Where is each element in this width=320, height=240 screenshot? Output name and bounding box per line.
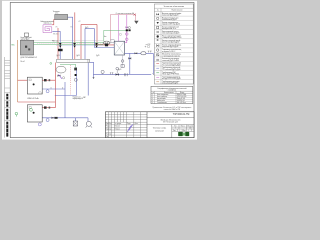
svg-text:нагрева: нагрева (44, 22, 50, 24)
svg-text:Наименование: Наименование (171, 10, 182, 12)
svg-text:из труб PPR PN10 Ду20: из труб PPR PN10 Ду20 (162, 78, 181, 80)
svg-text:КЧМ-5-К 21кВт: КЧМ-5-К 21кВт (27, 98, 39, 100)
svg-text:№ докум.: № докум. (115, 123, 122, 125)
svg-text:сеть: сеть (55, 13, 58, 15)
svg-text:Теплообменник: Теплообменник (157, 102, 167, 104)
svg-text:Бак расширит.: Бак расширит. (157, 98, 167, 100)
svg-text:Ду25: Ду25 (56, 55, 59, 57)
svg-text:согласно СНиП и ПБ: согласно СНиП и ПБ (164, 109, 181, 111)
svg-text:поплавковый Ду15: поплавковый Ду15 (162, 18, 177, 21)
svg-text:на ГВС: на ГВС (146, 44, 151, 46)
svg-text:Ду25: Ду25 (96, 55, 99, 57)
svg-text:У: У (175, 128, 176, 130)
svg-text:Иванов: Иванов (115, 126, 120, 128)
svg-text:Лист: Лист (109, 123, 112, 125)
svg-text:с мокрым ротором 25-40: с мокрым ротором 25-40 (162, 37, 181, 39)
svg-text:Наименование: Наименование (164, 92, 174, 94)
svg-text:водопровода В1: водопровода В1 (73, 98, 84, 100)
svg-text:с трехходовым краном: с трехходовым краном (162, 55, 181, 57)
svg-text:Ду25: Ду25 (85, 27, 88, 29)
svg-text:стальной Ду65 L=800: стальной Ду65 L=800 (162, 59, 179, 62)
svg-text:Условные обозначения: Условные обозначения (164, 6, 184, 8)
svg-text:Т2 стальной Ду25-Ду50: Т2 стальной Ду25-Ду50 (162, 68, 181, 71)
svg-text:Т3 из труб PPR PN20: Т3 из труб PPR PN20 (162, 74, 179, 76)
svg-text:в оправе 0-120 С: в оправе 0-120 С (162, 51, 176, 53)
svg-text:латунный Ду25-Ду32: латунный Ду25-Ду32 (162, 45, 178, 48)
svg-text:пружинный 3 бар Ду20: пружинный 3 бар Ду20 (162, 23, 180, 26)
svg-text:Петров: Петров (115, 128, 120, 130)
svg-text:50 м2: 50 м2 (20, 61, 24, 63)
svg-text:ХВС: ХВС (83, 97, 86, 99)
svg-text:Лист: Лист (173, 130, 176, 132)
svg-text:UPS 25-40 180: UPS 25-40 180 (177, 96, 186, 98)
svg-text:Ква: Ква (104, 36, 107, 38)
svg-text:Провер.: Провер. (106, 128, 112, 130)
svg-text:полнопроходной Ду20: полнопроходной Ду20 (162, 32, 179, 35)
svg-text:ГВС: ГВС (11, 44, 15, 46)
svg-text:Котел твердотопл.: Котел твердотопл. (157, 94, 169, 96)
svg-text:Насос циркуляц.: Насос циркуляц. (157, 96, 168, 98)
svg-text:Reflex N 50/6: Reflex N 50/6 (177, 98, 185, 100)
svg-text:ГВ: ГВ (50, 23, 52, 25)
svg-text:Т1 стальной Ду25-Ду50: Т1 стальной Ду25-Ду50 (162, 63, 181, 66)
svg-text:Разраб.: Разраб. (106, 126, 112, 128)
svg-text:Ду25: Ду25 (76, 55, 79, 57)
svg-text:Масштаб: Масштаб (187, 125, 193, 127)
svg-text:латунный Ду15-Ду25: латунный Ду15-Ду25 (162, 14, 178, 17)
svg-text:магнитный Ду25-Ду32: магнитный Ду25-Ду32 (162, 41, 179, 44)
svg-text:Н.контр.: Н.контр. (106, 134, 112, 136)
svg-text:Подп.: Подп. (127, 123, 131, 125)
svg-text:котельной: котельной (155, 129, 164, 132)
svg-text:мембранный 50 л.: мембранный 50 л. (162, 27, 177, 30)
svg-text:Ду15: Ду15 (118, 69, 121, 71)
svg-text:НН №14 16пл.: НН №14 16пл. (177, 102, 187, 104)
svg-text:циркуляции: циркуляции (21, 39, 30, 41)
svg-text:Тепловая схема: Тепловая схема (153, 128, 166, 130)
svg-text:в канализацию Ду32: в канализацию Ду32 (162, 83, 178, 85)
svg-text:ТЭП 000-01-ТМ: ТЭП 000-01-ТМ (173, 114, 190, 116)
svg-text:ГВС 55С: ГВС 55С (53, 34, 59, 36)
svg-text:КЧМ-5-К 21кВт: КЧМ-5-К 21кВт (177, 94, 187, 96)
svg-text:Тепловая: Тепловая (53, 11, 60, 13)
svg-text:SGW(S) 100: SGW(S) 100 (177, 100, 185, 102)
svg-text:Дата: Дата (135, 123, 138, 125)
svg-text:Масса: Масса (181, 125, 185, 127)
svg-text:Марка: Марка (180, 92, 184, 94)
